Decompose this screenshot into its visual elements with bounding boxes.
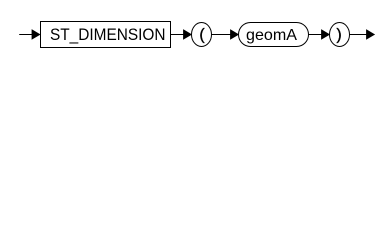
svg-text:ST_DIMENSION: ST_DIMENSION [50, 26, 166, 44]
svg-text:): ) [336, 27, 341, 44]
svg-text:(: ( [199, 27, 205, 44]
svg-text:geomA: geomA [246, 27, 297, 44]
